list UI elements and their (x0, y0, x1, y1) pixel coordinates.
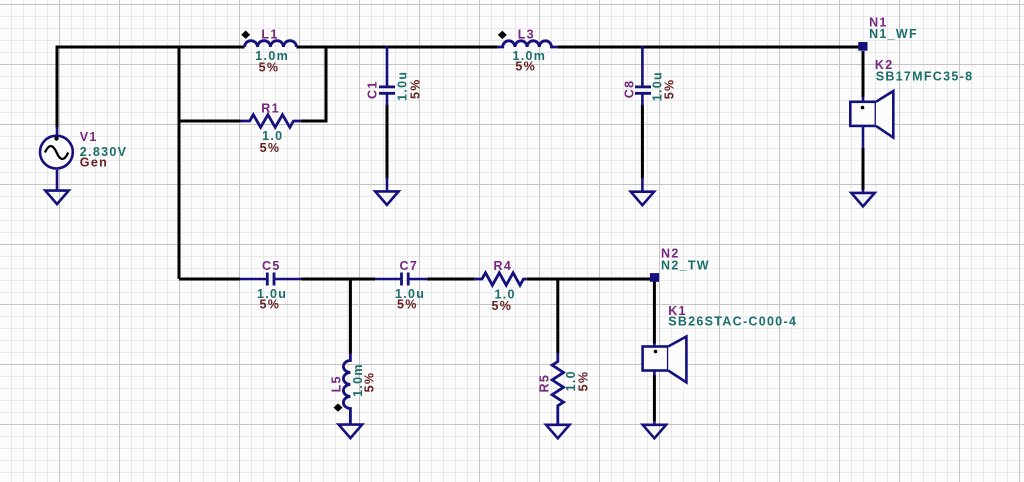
svg-text:C5: C5 (262, 259, 281, 273)
K2 designator label (875, 58, 894, 72)
svg-text:5%: 5% (492, 299, 513, 313)
svg-text:Gen: Gen (80, 155, 108, 169)
svg-text:5%: 5% (576, 371, 590, 392)
voltage source V1 (40, 127, 73, 191)
wire: R1 left lead wire (179, 120, 241, 123)
resistor R1 (241, 115, 302, 128)
wire: C7 to R4 (427, 278, 474, 281)
wire: K1 lower wire to ground (653, 375, 656, 421)
svg-text:5%: 5% (397, 298, 418, 312)
wire: vertical junction drop x=179 (top wire to bottom wire) (178, 46, 181, 280)
L5 probe diamond (334, 403, 343, 411)
C1 designator label (366, 80, 380, 99)
V1 value label 2.830V (80, 145, 127, 159)
inductor L3 (498, 41, 558, 47)
capacitor C7 (375, 273, 427, 286)
svg-text:R5: R5 (538, 374, 552, 393)
C7 tolerance label (397, 298, 418, 312)
resistor R4 (475, 273, 527, 285)
capacitor C1 (379, 46, 395, 106)
K2 part number label (876, 70, 974, 84)
C7 value label (395, 287, 425, 301)
R5 tolerance label (576, 371, 590, 392)
ground for K1 (643, 421, 666, 438)
wire: R1 right to top wire (301, 46, 326, 122)
wire: R4 to node N2 (527, 278, 650, 281)
K1 designator label (668, 304, 687, 318)
svg-text:N1_WF: N1_WF (869, 27, 918, 41)
R1 value label (262, 129, 283, 143)
R5 value label (564, 370, 578, 391)
C8 tolerance label (663, 79, 677, 100)
svg-text:5%: 5% (663, 79, 677, 100)
R4 designator label (494, 259, 513, 273)
L1 designator label (261, 28, 278, 42)
wire: C5 to C7 (302, 278, 376, 281)
inductor L5 (343, 354, 350, 425)
C7 designator label (400, 259, 419, 273)
inductor L1 (245, 41, 297, 47)
ground for V1 (45, 191, 68, 205)
N1 net name label (869, 16, 888, 30)
svg-text:5%: 5% (259, 61, 280, 75)
N2 net name label (661, 247, 680, 261)
R1 tolerance label (260, 141, 281, 155)
resistor R5 (552, 353, 563, 425)
N2_TW net label (661, 258, 710, 272)
node N2 (650, 273, 659, 282)
wire: C8 lower wire (641, 105, 644, 179)
K1 part number label (668, 314, 797, 328)
capacitor C8 (635, 46, 651, 106)
svg-text:5%: 5% (409, 78, 423, 99)
V1 label Gen (80, 155, 108, 169)
ground for C8 (631, 178, 654, 206)
C8 value label (651, 71, 665, 101)
svg-text:L3: L3 (518, 28, 535, 42)
R4 tolerance label (492, 299, 513, 313)
C1 value label (396, 71, 410, 101)
V1 designator label (80, 130, 98, 144)
L3 probe diamond (498, 31, 507, 39)
N1_WF net label (869, 27, 918, 41)
L1 tolerance label (259, 61, 280, 75)
L1 value label (255, 49, 289, 63)
svg-text:5%: 5% (260, 141, 281, 155)
svg-text:L1: L1 (261, 28, 278, 42)
ground for L5 (339, 425, 362, 439)
svg-text:N2_TW: N2_TW (661, 258, 710, 272)
wire: R5 branch drop (556, 279, 559, 353)
wire: K2 lower wire to ground (862, 148, 865, 190)
L5 tolerance label (363, 372, 377, 393)
C5 designator label (262, 259, 281, 273)
R5 designator label (538, 374, 552, 393)
svg-text:L5: L5 (330, 375, 344, 392)
L3 value label (513, 49, 547, 63)
svg-text:C1: C1 (366, 80, 380, 99)
wire top-left: V1 to L1 (57, 47, 245, 128)
ground for C1 (375, 178, 398, 205)
L5 value label (351, 363, 365, 397)
wire: K1 upper wire (N2 to speaker) (653, 281, 656, 344)
svg-text:5%: 5% (515, 60, 536, 74)
wire: bottom wire junction to C5 (179, 278, 240, 281)
wire: L1 right to L3 left (297, 46, 498, 49)
wire: L5 branch drop (349, 279, 352, 354)
node N1 (858, 42, 867, 51)
svg-text:SB17MFC35-8: SB17MFC35-8 (876, 70, 974, 84)
svg-text:5%: 5% (260, 298, 281, 312)
ground for K2 (851, 189, 874, 206)
C8 designator label (623, 80, 637, 99)
svg-text:C7: C7 (400, 259, 419, 273)
wire: L3 right to node N1 (558, 46, 859, 49)
capacitor C5 (240, 273, 302, 286)
speaker K1 (643, 337, 687, 383)
L3 tolerance label (515, 60, 536, 74)
svg-text:SB26STAC-C000-4: SB26STAC-C000-4 (668, 314, 797, 328)
svg-text:R4: R4 (494, 259, 513, 273)
L1 probe diamond (241, 31, 250, 39)
wire: C1 lower wire (386, 105, 389, 179)
R1 designator label (261, 102, 280, 116)
svg-text:V1: V1 (80, 130, 98, 144)
svg-text:R1: R1 (261, 102, 280, 116)
C1 tolerance label (409, 78, 423, 99)
svg-text:5%: 5% (363, 372, 377, 393)
L3 designator label (518, 28, 535, 42)
L5 designator label (330, 375, 344, 392)
C5 tolerance label (260, 298, 281, 312)
C5 value label (257, 287, 287, 301)
svg-text:1.0u: 1.0u (396, 71, 410, 101)
R4 value label (495, 287, 516, 301)
speaker K2 (850, 91, 893, 148)
ground for R5 (546, 425, 569, 439)
svg-text:C8: C8 (623, 80, 637, 99)
wire: K2 upper wire (N1 to speaker) (862, 51, 865, 97)
